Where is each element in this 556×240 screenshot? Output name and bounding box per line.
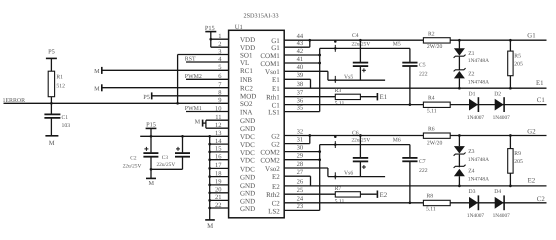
svg-text:C2: C2 [130,156,137,162]
svg-text:41: 41 [297,56,304,63]
svg-text:5.11: 5.11 [427,109,437,115]
svg-text:R6: R6 [428,127,435,133]
svg-text:28: 28 [297,161,304,168]
svg-text:512: 512 [56,83,65,89]
node E2/Z4 [458,185,461,188]
svg-text:205: 205 [514,159,523,165]
wire pin 1 [211,38,229,40]
capacitor C2 22u/25V [143,152,158,154]
svg-text:COM1: COM1 [260,52,280,60]
svg-text:E2: E2 [272,183,280,191]
svg-text:37: 37 [297,90,304,97]
svg-text:C2: C2 [537,196,546,203]
wire tick at second line ch2 [334,141,336,148]
wire P5 to R1 [50,58,52,71]
svg-text:E1: E1 [536,80,544,87]
wire pin 41 [284,62,320,64]
resistor R6 2W/20 [423,133,450,138]
svg-text:COM2: COM2 [260,149,280,157]
wire tick at Vs5 line [334,76,336,83]
node caps/gnd [150,168,153,171]
svg-text:R9: R9 [514,151,521,157]
wire pin 42 [284,54,320,56]
node G1/C4 [359,39,362,42]
resistor R4 5.11 [423,102,450,107]
svg-text:R5: R5 [514,53,521,59]
svg-text:222: 222 [419,168,428,174]
svg-text:E1: E1 [272,76,280,84]
svg-text:2W/20: 2W/20 [427,44,443,50]
wire pin 31 jog [284,143,310,145]
svg-text:22u/25V: 22u/25V [157,162,176,168]
wire pin 39 jog [284,78,310,80]
zener Z3 1N4748A [458,136,460,147]
node rail/bus [208,135,211,138]
wire Z4 to E2 [458,176,460,186]
node G1/pin43 [308,39,311,42]
svg-text:5.11: 5.11 [426,207,436,213]
svg-text:GND: GND [240,117,255,125]
resistor R5 205 [509,40,511,51]
ground M (bus) [205,219,215,221]
svg-text:G2: G2 [271,132,280,140]
svg-text:25: 25 [297,187,304,194]
wire SO1 to 1ERROR vertical [177,55,179,104]
svg-text:G1: G1 [527,32,535,39]
svg-text:P5: P5 [48,48,55,55]
node G1/Z1 [458,39,461,42]
svg-text:Rth1: Rth1 [266,94,280,102]
svg-text:RC1: RC1 [240,67,253,75]
svg-text:Z3: Z3 [468,149,474,155]
svg-text:Vs6: Vs6 [344,170,353,176]
svg-text:D2: D2 [494,92,501,98]
svg-text:M: M [195,118,201,125]
zener Z1 1N4748A [458,40,460,48]
svg-text:38: 38 [297,81,304,88]
capacitor C1 103 [44,113,60,115]
wire pin 12 [206,127,229,129]
wire C2 line (pin 24) [284,202,546,204]
svg-text:R2: R2 [428,31,435,37]
node COM2/pin30 [318,150,321,153]
wire caps join [151,168,183,170]
svg-text:D3: D3 [469,189,476,195]
wire pin 7 [102,87,229,89]
net Vs5 wire [328,79,385,81]
svg-text:M: M [94,68,100,75]
node pin1 junction [209,38,212,41]
svg-text:E2: E2 [528,177,536,184]
svg-text:39: 39 [297,72,304,79]
svg-text:GND: GND [240,205,255,213]
svg-text:27: 27 [297,169,304,176]
wire pin 3 (SO1) [178,54,229,56]
svg-text:VDC: VDC [240,157,255,165]
capacitor C4 22u/25V [359,40,361,62]
svg-text:22u/25V: 22u/25V [352,138,371,144]
node tick G1 line [334,40,337,43]
svg-text:1N4748A: 1N4748A [468,80,489,86]
svg-text:Z1: Z1 [468,51,474,57]
svg-text:103: 103 [62,123,71,129]
svg-text:P15: P15 [146,121,156,128]
svg-text:1N4007: 1N4007 [493,213,511,219]
svg-text:G1: G1 [271,44,280,52]
svg-text:43: 43 [297,40,304,47]
svg-text:24: 24 [297,196,304,203]
svg-text:222: 222 [419,71,428,77]
capacitor C5 222 [409,48,411,62]
capacitor C7 222 [409,145,411,158]
wire pin 40 jog (Vso1) [284,70,328,72]
svg-text:1N4748A: 1N4748A [468,177,489,183]
svg-text:1N4748A: 1N4748A [468,157,489,163]
wire pin 23 (LS2) [284,209,320,211]
svg-text:GND: GND [240,182,255,190]
wire pins 13-22 to bus [210,135,229,137]
svg-text:26: 26 [297,179,304,186]
svg-text:1N4007: 1N4007 [467,115,485,121]
capacitor C6 22u/25V [359,136,361,158]
wire COM2 bus [319,145,321,211]
svg-text:LS2: LS2 [268,207,280,215]
resistor R9 205 [509,136,511,149]
svg-text:22u/25V: 22u/25V [352,42,371,48]
svg-text:E2: E2 [272,173,280,181]
svg-text:29: 29 [297,153,304,160]
wire Z2 to E1 [458,78,460,88]
wire P15 stem to rail [150,128,152,136]
resistor R8 5.11 [423,200,450,205]
svg-text:1N4007: 1N4007 [467,213,485,219]
node E1/R5 [509,87,512,90]
svg-text:36: 36 [297,97,304,104]
svg-text:Z4: Z4 [468,169,474,175]
diode D3 1N4007 [469,197,478,209]
svg-text:M6: M6 [393,138,401,144]
node E2/R9 [509,185,512,188]
wire pin 30 [284,151,320,153]
svg-text:VDD: VDD [240,36,255,44]
svg-text:C1: C1 [62,115,69,121]
svg-text:35: 35 [297,104,304,111]
svg-text:C1: C1 [537,97,545,104]
wire pin 11 [206,119,229,121]
wire node to C1 [50,103,52,114]
svg-text:GND: GND [240,174,255,182]
svg-text:2SD315AI-33: 2SD315AI-33 [244,13,279,20]
svg-text:42: 42 [297,48,304,55]
svg-text:30: 30 [297,144,304,151]
svg-text:5.11: 5.11 [335,101,345,107]
diode D4 1N4007 [495,197,504,209]
svg-text:G2: G2 [527,129,536,136]
svg-text:SO2: SO2 [240,100,253,108]
svg-text:40: 40 [297,64,304,71]
power P5 [46,57,57,59]
wire G1 line (pin 44) [284,39,546,41]
node COM2/pin29 [318,158,321,161]
node COM1/pin41 [318,62,321,65]
node tick second line ch2 [334,143,337,146]
node G2/C6 [359,134,362,137]
node 1ERROR junction [176,102,179,105]
wire pin 2 [211,46,229,48]
wire E2 line (pin 26) [284,185,546,187]
node G2/Z3 [458,134,461,137]
wire M bracket [203,122,206,124]
node COM1/pin42 [318,54,321,57]
wire to ground [150,169,152,178]
node tick second line [334,47,337,50]
IC U1 2SD315AI-33 [229,30,285,218]
ground M (below C1) [45,135,58,137]
wire E1 line (pin 38) [284,87,546,89]
svg-text:44: 44 [297,33,304,40]
svg-text:1N4007: 1N4007 [493,115,511,121]
node G2/pin31 [308,134,311,137]
svg-text:G2: G2 [271,141,280,149]
node G2/R9 [509,134,512,137]
svg-text:VDC: VDC [240,165,255,173]
wire R1 to node [50,97,52,104]
resistor R1 512 [48,71,54,97]
svg-text:M: M [207,223,213,230]
wire tick at second line [334,45,336,52]
power P15 (VDC) [146,127,157,129]
wire pin 8 [152,95,229,97]
svg-text:LS1: LS1 [268,109,280,117]
net Vs6 wire [328,176,385,178]
svg-text:COM1: COM1 [260,60,280,68]
svg-text:C7: C7 [419,159,426,165]
wire C1 line (pin 36) [284,104,546,106]
svg-text:R3: R3 [335,88,342,94]
svg-text:D4: D4 [494,189,501,195]
wire GND bus [209,136,211,220]
wire Z3-Z4 [458,155,460,168]
port E2 (Rth2) [376,191,378,198]
wire C2 top lead [150,136,152,152]
svg-text:C5: C5 [419,63,426,69]
wire tick at Vs6 line [334,172,336,179]
wire pin 28 jog (Vso2) [284,167,328,169]
svg-text:Vs5: Vs5 [344,74,353,80]
wire C3 bottom lead [182,157,184,170]
capacitor C3 22u/25V [175,152,190,154]
resistor R3 5.11 (pin 37) [284,96,335,98]
svg-text:R4: R4 [428,95,435,101]
wire pin 35 (LS1) [284,111,320,113]
node rail/C3 [181,135,184,138]
diode D2 1N4007 [495,99,504,111]
svg-text:VDC: VDC [240,141,255,149]
svg-text:P15: P15 [205,25,215,32]
svg-text:R7: R7 [335,186,342,192]
svg-text:C6: C6 [352,131,359,137]
zener Z4 1N4748A [454,165,466,168]
svg-text:205: 205 [514,62,523,68]
svg-text:U1: U1 [235,24,243,31]
svg-text:INA: INA [240,108,252,116]
svg-text:M5: M5 [393,42,401,48]
wire C1 to ground [50,118,52,136]
wire pin 43 jog [284,46,310,48]
resistor R7 5.11 (pin 25) [284,193,335,195]
svg-text:C3: C3 [162,155,169,161]
svg-text:1N4748A: 1N4748A [468,58,489,64]
svg-text:M: M [148,180,154,187]
wire P15 rail [140,135,210,137]
svg-text:Rth2: Rth2 [266,191,280,199]
svg-text:P5: P5 [143,94,150,101]
svg-text:R8: R8 [427,194,434,200]
svg-text:32: 32 [297,128,304,135]
diode D1 1N4007 [469,99,478,111]
node tick G2 line [334,136,337,139]
zener Z2 1N4748A [454,68,466,71]
wire C3 top lead [182,136,184,152]
ground M (below C2) [146,177,156,179]
wire Z1-Z2 [458,57,460,71]
svg-text:D1: D1 [469,92,476,98]
node rail/C2 [150,135,153,138]
node E1/Z2 [458,87,461,90]
svg-text:C4: C4 [352,33,359,39]
wire COM1 second line [320,47,410,49]
node tick Vs5 [334,79,336,81]
svg-text:Vso1: Vso1 [265,68,280,76]
svg-text:VDC: VDC [240,133,255,141]
svg-text:VL: VL [240,59,249,67]
svg-text:INB: INB [240,76,252,84]
wire P15 stem [210,32,212,48]
svg-text:R1: R1 [56,75,63,81]
node C1line/C5 [409,103,412,106]
svg-text:GND: GND [240,125,255,133]
svg-text:VDC: VDC [240,149,255,157]
node C2line/C7 [409,201,412,204]
power P15 (pins 1-2) [205,31,216,33]
wire COM2 second line [320,144,410,146]
wire pin 29 [284,159,320,161]
svg-text:M: M [49,140,55,147]
svg-text:E1: E1 [272,85,280,93]
svg-text:22u/25V: 22u/25V [123,163,142,169]
port E1 (Rth1) [376,93,378,100]
wire pin 27 jog [284,175,310,177]
svg-text:E1: E1 [380,94,388,101]
svg-text:23: 23 [297,203,304,210]
wire C2 bottom lead [150,157,152,170]
svg-text:RC2: RC2 [240,85,253,93]
node 1ERROR/R1/C1 [50,102,53,105]
node G1/R5 [509,39,512,42]
svg-text:E2: E2 [380,192,388,199]
svg-text:2W/20: 2W/20 [427,141,443,147]
svg-text:Vso2: Vso2 [265,165,280,173]
node tick Vs6 [334,175,336,177]
svg-text:31: 31 [297,136,304,143]
svg-text:M: M [94,85,100,92]
svg-text:Z2: Z2 [468,71,474,77]
wire G2 line (pin 32) [284,135,546,137]
wire pin 5 [102,69,229,71]
wire COM1 bus [319,48,321,111]
resistor R2 2W/20 [423,38,450,43]
svg-text:COM2: COM2 [260,157,280,165]
